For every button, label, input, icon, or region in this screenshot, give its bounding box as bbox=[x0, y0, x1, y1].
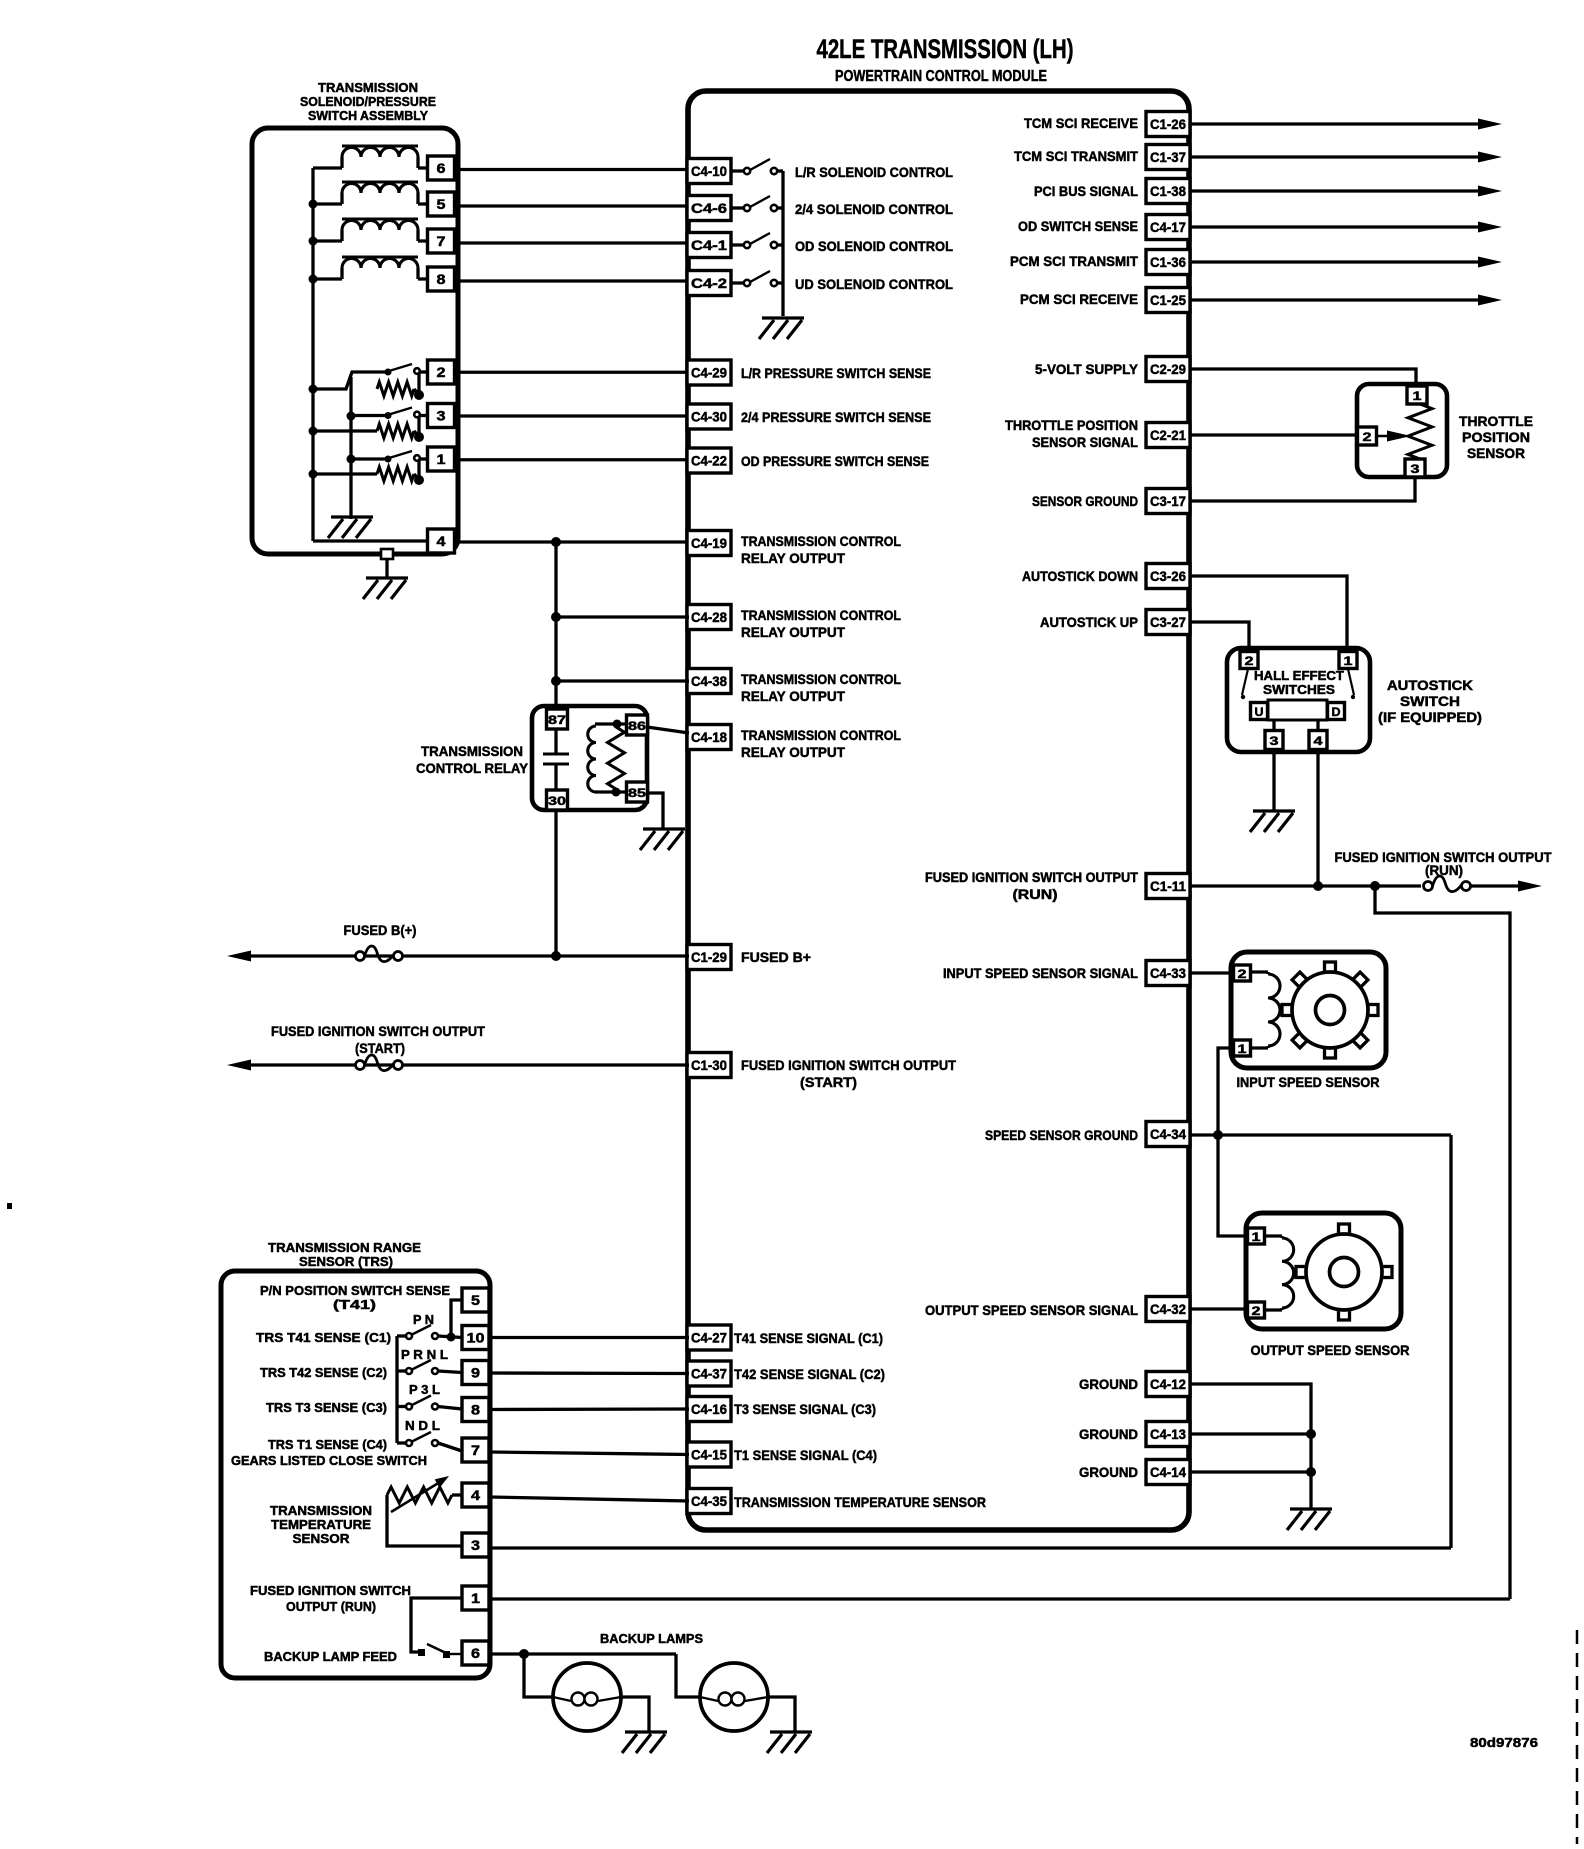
PCM connector C1-37 bbox=[1146, 145, 1190, 170]
junction coil bus pin7 row bbox=[309, 237, 318, 246]
throttle position sensor box bbox=[1357, 384, 1447, 477]
junction relay coil bottom bbox=[612, 788, 621, 797]
svg-text:FUSED IGNITION SWITCH OUTPUT: FUSED IGNITION SWITCH OUTPUT bbox=[741, 1057, 956, 1073]
wire bus signal with off-page arrow bbox=[1190, 260, 1482, 263]
autostick pin 4 bbox=[1309, 731, 1327, 750]
junction speed sensor ground bbox=[1213, 1130, 1223, 1140]
svg-text:C4-2: C4-2 bbox=[691, 275, 727, 291]
wire bus signal with off-page arrow bbox=[1190, 225, 1482, 228]
svg-text:POWERTRAIN CONTROL MODULE: POWERTRAIN CONTROL MODULE bbox=[835, 68, 1047, 85]
wire bus signal with off-page arrow bbox=[1190, 189, 1482, 192]
wire TRS pin10 to C4-27 bbox=[489, 1336, 689, 1339]
autostick U contact box bbox=[1251, 703, 1268, 720]
input speed sensor pin 2 bbox=[1234, 965, 1251, 981]
wire C1-11 fused ignition run bbox=[1190, 884, 1421, 887]
svg-text:2: 2 bbox=[437, 364, 446, 380]
svg-text:OD PRESSURE SWITCH SENSE: OD PRESSURE SWITCH SENSE bbox=[741, 453, 929, 469]
svg-text:C4-33: C4-33 bbox=[1150, 965, 1186, 981]
svg-text:L/R SOLENOID CONTROL: L/R SOLENOID CONTROL bbox=[795, 164, 953, 180]
svg-text:N D L: N D L bbox=[405, 1418, 440, 1433]
PCM connector C1-11 bbox=[1146, 874, 1190, 899]
svg-text:T3 SENSE SIGNAL (C3): T3 SENSE SIGNAL (C3) bbox=[734, 1401, 876, 1417]
output speed sensor coil bbox=[1264, 1234, 1282, 1237]
wire relay vertical bus from pin4 line bbox=[554, 542, 557, 711]
assembly pin 1 bbox=[428, 447, 455, 471]
ground (lamp 2) bbox=[767, 1732, 812, 1753]
junction relay feed on pin4 wire bbox=[551, 537, 561, 547]
ground (PCM grounds) bbox=[1287, 1509, 1332, 1530]
autostick pin 3 bbox=[1265, 731, 1283, 750]
wire assembly pin4 to C4-19 bbox=[455, 540, 689, 543]
svg-text:TRANSMISSION CONTROL: TRANSMISSION CONTROL bbox=[741, 607, 901, 623]
svg-text:TCM SCI TRANSMIT: TCM SCI TRANSMIT bbox=[1014, 148, 1138, 164]
wire bus signal with off-page arrow bbox=[1190, 298, 1482, 301]
wire input pin1 to speed sensor ground rail bbox=[1218, 1048, 1248, 1236]
svg-text:FUSED IGNITION SWITCH OUTPUT: FUSED IGNITION SWITCH OUTPUT bbox=[925, 869, 1138, 885]
svg-text:GEARS LISTED CLOSE SWITCH: GEARS LISTED CLOSE SWITCH bbox=[231, 1453, 427, 1468]
assembly pin 7 bbox=[428, 229, 455, 253]
input speed sensor coil bbox=[1250, 970, 1268, 973]
svg-text:(RUN): (RUN) bbox=[1013, 886, 1058, 902]
svg-text:C4-6: C4-6 bbox=[691, 200, 727, 216]
svg-text:OD SWITCH SENSE: OD SWITCH SENSE bbox=[1018, 218, 1138, 234]
driver switch for OD SOLENOID CONTROL bbox=[731, 243, 744, 246]
svg-text:C1-26: C1-26 bbox=[1150, 116, 1186, 132]
svg-text:PCI BUS SIGNAL: PCI BUS SIGNAL bbox=[1034, 183, 1138, 199]
svg-text:SWITCH: SWITCH bbox=[1400, 693, 1460, 709]
PCM connector C3-17 bbox=[1146, 489, 1190, 514]
svg-text:C2-29: C2-29 bbox=[1150, 361, 1186, 377]
wire rocker to pin4 bbox=[1316, 720, 1319, 731]
assembly pin 4 bbox=[428, 529, 455, 553]
assembly pin 3 bbox=[428, 404, 455, 428]
svg-text:5: 5 bbox=[437, 196, 446, 212]
svg-text:1: 1 bbox=[1413, 389, 1422, 403]
junction relay feed on fused B+ wire bbox=[551, 951, 561, 961]
svg-text:1: 1 bbox=[1238, 1042, 1247, 1056]
arrow fused B+ off-page bbox=[227, 951, 251, 962]
wire driver common to ground bbox=[781, 171, 784, 316]
svg-text:RELAY OUTPUT: RELAY OUTPUT bbox=[741, 550, 845, 566]
relay contact (pins 87-30, capacitor-style gap) bbox=[554, 729, 557, 753]
svg-text:T1 SENSE SIGNAL (C4): T1 SENSE SIGNAL (C4) bbox=[734, 1447, 877, 1463]
wire TRS pin4 to C4-35 bbox=[489, 1497, 689, 1501]
svg-text:C4-1: C4-1 bbox=[691, 237, 727, 253]
svg-text:TEMPERATURE: TEMPERATURE bbox=[271, 1517, 371, 1532]
backup lamp E2 bbox=[700, 1663, 768, 1731]
wire bus signal with off-page arrow bbox=[1190, 155, 1482, 158]
svg-text:INPUT SPEED SENSOR SIGNAL: INPUT SPEED SENSOR SIGNAL bbox=[943, 965, 1138, 981]
svg-text:TRS T42 SENSE (C2): TRS T42 SENSE (C2) bbox=[260, 1365, 387, 1380]
PCM connector C4-28 bbox=[687, 605, 731, 630]
svg-text:BACKUP LAMP FEED: BACKUP LAMP FEED bbox=[264, 1649, 397, 1664]
PCM connector C4-38 bbox=[687, 669, 731, 694]
svg-text:FUSED IGNITION SWITCH: FUSED IGNITION SWITCH bbox=[250, 1583, 411, 1598]
svg-text:T41 SENSE SIGNAL (C1): T41 SENSE SIGNAL (C1) bbox=[734, 1330, 883, 1346]
ground (solenoid drivers) bbox=[759, 318, 804, 339]
svg-text:U: U bbox=[1255, 705, 1264, 719]
svg-text:C4-30: C4-30 bbox=[691, 409, 727, 425]
relay resistor parallel with coil bbox=[608, 727, 625, 789]
solenoid coil L/R solenoid L1 (pin 6) bbox=[342, 148, 418, 158]
PCM connector C3-27 bbox=[1146, 610, 1190, 635]
scan marks right margin bbox=[1576, 1630, 1579, 1844]
autostick pin 2 bbox=[1240, 652, 1258, 669]
wire TRS pin5 to T41 line bbox=[451, 1300, 462, 1337]
TRS switch T41 (C1) bbox=[397, 1334, 406, 1337]
svg-text:C4-10: C4-10 bbox=[691, 163, 727, 179]
svg-text:TRANSMISSION CONTROL: TRANSMISSION CONTROL bbox=[741, 671, 901, 687]
TPS resistor bbox=[1408, 404, 1432, 459]
svg-text:5: 5 bbox=[471, 1292, 480, 1308]
svg-text:9: 9 bbox=[471, 1365, 480, 1381]
wire TRS pin7 to C4-15 bbox=[489, 1452, 689, 1455]
svg-text:P R N L: P R N L bbox=[401, 1347, 448, 1362]
PCM connector C4-27 bbox=[687, 1325, 731, 1350]
svg-text:SENSOR: SENSOR bbox=[293, 1531, 351, 1546]
wire TRS pin8 to C4-16 bbox=[489, 1407, 689, 1411]
svg-text:C1-30: C1-30 bbox=[691, 1057, 727, 1073]
wire C4-34 speed sensor ground bbox=[1190, 1133, 1451, 1136]
svg-text:86: 86 bbox=[628, 719, 646, 733]
backup lamp E1 bbox=[553, 1663, 621, 1731]
svg-text:C4-13: C4-13 bbox=[1150, 1426, 1186, 1442]
wire TRS pin1 fused ignition run rail bbox=[489, 1597, 1510, 1600]
svg-text:GROUND: GROUND bbox=[1079, 1426, 1138, 1442]
svg-text:TRANSMISSION CONTROL: TRANSMISSION CONTROL bbox=[741, 727, 901, 743]
svg-text:C4-29: C4-29 bbox=[691, 365, 727, 381]
wire relay 86 to C4-18 bbox=[647, 727, 689, 733]
svg-text:C1-37: C1-37 bbox=[1150, 149, 1186, 165]
TRS pin 1 bbox=[462, 1586, 489, 1610]
TPS pin 3 bbox=[1405, 459, 1425, 477]
junction ground C4-14 bbox=[1306, 1467, 1316, 1477]
input speed sensor pin 1 bbox=[1234, 1040, 1251, 1056]
PCM connector C3-26 bbox=[1146, 564, 1190, 589]
svg-text:80d97876: 80d97876 bbox=[1470, 1735, 1538, 1750]
svg-text:(RUN): (RUN) bbox=[1425, 862, 1463, 878]
svg-text:C1-29: C1-29 bbox=[691, 949, 727, 965]
svg-text:C1-38: C1-38 bbox=[1150, 183, 1186, 199]
wire TRS pin6 to lamps bbox=[489, 1652, 676, 1655]
junction C4-28 wire bbox=[551, 612, 561, 622]
svg-text:2: 2 bbox=[1252, 1304, 1261, 1318]
transmission range sensor box bbox=[221, 1271, 490, 1678]
wire lamp2 to ground bbox=[768, 1697, 795, 1731]
wire relay 30 down to fused B+ line bbox=[554, 810, 557, 956]
driver switch for 2/4 SOLENOID CONTROL bbox=[731, 206, 744, 209]
svg-text:10: 10 bbox=[467, 1330, 485, 1346]
arrow fused ignition start off-page bbox=[227, 1060, 251, 1071]
svg-text:C4-22: C4-22 bbox=[691, 453, 727, 469]
PCM connector C4-6 bbox=[687, 196, 731, 221]
svg-text:4: 4 bbox=[471, 1487, 480, 1503]
svg-text:POSITION: POSITION bbox=[1462, 429, 1530, 445]
driver switch for L/R SOLENOID CONTROL bbox=[731, 169, 744, 172]
inner bus wire to ground bbox=[349, 377, 352, 519]
wire TPS pin3 to C3-17 bbox=[1190, 477, 1415, 501]
junction inner bus row3 bbox=[347, 455, 356, 464]
svg-text:TRANSMISSION: TRANSMISSION bbox=[318, 80, 418, 95]
assembly pin 5 bbox=[428, 192, 455, 216]
wire fused B+ to C1-29 bbox=[247, 954, 689, 957]
TRS pin 3 bbox=[462, 1533, 489, 1557]
svg-text:SWITCH ASSEMBLY: SWITCH ASSEMBLY bbox=[308, 108, 428, 123]
driver switch for UD SOLENOID CONTROL bbox=[731, 281, 744, 284]
wire fused ignition start to C1-30 bbox=[247, 1063, 689, 1066]
junction C4-38 wire bbox=[551, 676, 561, 686]
svg-text:6: 6 bbox=[437, 160, 446, 176]
svg-text:C1-36: C1-36 bbox=[1150, 254, 1186, 270]
wire down to lamp 2 bbox=[676, 1654, 700, 1697]
junction coil bus pin5 row bbox=[309, 200, 318, 209]
junction backup lamp feed bbox=[519, 1649, 529, 1659]
wire relay 85 to ground bbox=[647, 793, 663, 828]
wire C4-12 to ground bbox=[1190, 1384, 1311, 1508]
wire C4-32 to output speed sensor pin2 bbox=[1190, 1307, 1248, 1310]
svg-text:UD SOLENOID CONTROL: UD SOLENOID CONTROL bbox=[795, 276, 953, 292]
svg-text:SENSOR (TRS): SENSOR (TRS) bbox=[299, 1254, 393, 1269]
autostick pin 1 bbox=[1339, 652, 1357, 669]
PCM connector C2-21 bbox=[1146, 423, 1190, 448]
svg-text:(START): (START) bbox=[800, 1074, 857, 1090]
output speed sensor tone wheel bbox=[1339, 1224, 1350, 1235]
PCM connector C4-29 bbox=[687, 360, 731, 385]
svg-text:2: 2 bbox=[1363, 430, 1372, 444]
fuse F3 (ignition run) bbox=[1424, 876, 1471, 892]
wire assembly to PCM bbox=[455, 279, 689, 282]
wire C3-27 to autostick pin2 bbox=[1190, 622, 1249, 652]
svg-text:GROUND: GROUND bbox=[1079, 1376, 1138, 1392]
TRS pin 5 bbox=[462, 1288, 489, 1312]
svg-text:RELAY OUTPUT: RELAY OUTPUT bbox=[741, 688, 845, 704]
svg-text:OUTPUT (RUN): OUTPUT (RUN) bbox=[286, 1599, 376, 1614]
svg-text:C3-27: C3-27 bbox=[1150, 614, 1186, 630]
svg-text:2/4 SOLENOID CONTROL: 2/4 SOLENOID CONTROL bbox=[795, 201, 953, 217]
PCM connector C4-10 bbox=[687, 159, 731, 184]
input speed sensor tone wheel bbox=[1325, 962, 1336, 973]
svg-text:C4-18: C4-18 bbox=[691, 729, 727, 745]
PCM connector C4-19 bbox=[687, 531, 731, 556]
svg-text:2: 2 bbox=[1245, 654, 1254, 668]
junction relay coil top bbox=[613, 720, 622, 729]
svg-text:1: 1 bbox=[1252, 1230, 1261, 1244]
wire autostick pin3 to ground bbox=[1272, 750, 1275, 810]
scan mark left margin bbox=[7, 1203, 12, 1209]
input speed sensor box bbox=[1231, 952, 1386, 1068]
wire run rail down to TRS pin 1 bbox=[1375, 886, 1510, 1599]
wire C4-33 to input speed sensor pin2 bbox=[1190, 971, 1234, 974]
svg-text:TRANSMISSION CONTROL: TRANSMISSION CONTROL bbox=[741, 533, 901, 549]
svg-text:SPEED SENSOR GROUND: SPEED SENSOR GROUND bbox=[985, 1127, 1138, 1143]
solenoid coil UD solenoid L4 (pin 8) bbox=[342, 259, 418, 269]
PCM connector C4-18 bbox=[687, 725, 731, 750]
svg-text:OUTPUT SPEED SENSOR SIGNAL: OUTPUT SPEED SENSOR SIGNAL bbox=[925, 1302, 1138, 1318]
svg-text:C4-19: C4-19 bbox=[691, 535, 727, 551]
svg-text:AUTOSTICK DOWN: AUTOSTICK DOWN bbox=[1022, 568, 1138, 584]
svg-text:FUSED B+: FUSED B+ bbox=[741, 949, 811, 965]
wire C4-13 to ground bbox=[1190, 1432, 1311, 1435]
svg-text:SWITCHES: SWITCHES bbox=[1263, 683, 1335, 697]
transmission control relay K1 box bbox=[532, 706, 647, 810]
PCM connector C1-38 bbox=[1146, 179, 1190, 204]
PCM connector C4-33 bbox=[1146, 961, 1190, 986]
PCM connector C4-2 bbox=[687, 271, 731, 296]
svg-text:C1-25: C1-25 bbox=[1150, 292, 1186, 308]
svg-text:(T41): (T41) bbox=[333, 1297, 376, 1312]
svg-text:C4-34: C4-34 bbox=[1150, 1126, 1186, 1142]
junction pin5 T41 bbox=[447, 1333, 456, 1342]
svg-text:TRANSMISSION TEMPERATURE SENSO: TRANSMISSION TEMPERATURE SENSOR bbox=[734, 1494, 986, 1510]
wire rocker to pin3 bbox=[1272, 720, 1275, 731]
junction run rail bbox=[1370, 881, 1380, 891]
transmission solenoid/pressure switch assembly box bbox=[252, 128, 458, 554]
wire lamp1 to ground bbox=[621, 1697, 649, 1731]
svg-text:C4-14: C4-14 bbox=[1150, 1464, 1186, 1480]
backup lamp switch S4 bbox=[418, 1649, 425, 1656]
2/4 pressure switch S2 with parallel resistor bbox=[313, 429, 377, 432]
junction bus pressure row 1 bbox=[309, 385, 318, 394]
svg-text:TRS T3 SENSE (C3): TRS T3 SENSE (C3) bbox=[266, 1400, 387, 1415]
ground (autostick) bbox=[1250, 811, 1295, 832]
wire C2-21 to TPS pin2 bbox=[1190, 433, 1358, 436]
PCM connector C4-13 bbox=[1146, 1422, 1190, 1447]
svg-text:1: 1 bbox=[471, 1590, 480, 1606]
assembly case bottom stub bbox=[381, 549, 393, 559]
arrow fused ignition run off-page bbox=[1518, 881, 1542, 892]
assembly pin 8 bbox=[428, 267, 455, 291]
junction bus pressure row 3 bbox=[309, 470, 318, 479]
svg-text:C4-15: C4-15 bbox=[691, 1447, 727, 1463]
svg-text:(START): (START) bbox=[355, 1040, 405, 1056]
svg-text:87: 87 bbox=[548, 713, 566, 727]
junction inner bus row2 bbox=[347, 412, 356, 421]
svg-text:T42 SENSE SIGNAL (C2): T42 SENSE SIGNAL (C2) bbox=[734, 1366, 885, 1382]
junction coil bus pin8 row bbox=[309, 275, 318, 284]
relay pin 86 bbox=[627, 715, 648, 735]
svg-text:TRANSMISSION: TRANSMISSION bbox=[421, 743, 523, 759]
svg-text:4: 4 bbox=[437, 533, 446, 549]
L/R pressure switch S1 with parallel resistor bbox=[313, 372, 387, 389]
wire bus signal with off-page arrow bbox=[1190, 122, 1482, 125]
TRS switch T42 (C2) bbox=[397, 1369, 406, 1372]
svg-text:RELAY OUTPUT: RELAY OUTPUT bbox=[741, 624, 845, 640]
junction autostick pin4 bbox=[1313, 881, 1323, 891]
PCM connector C4-30 bbox=[687, 404, 731, 429]
svg-text:TRANSMISSION: TRANSMISSION bbox=[270, 1503, 372, 1518]
svg-text:4: 4 bbox=[1314, 734, 1323, 748]
PCM connector C1-36 bbox=[1146, 250, 1190, 275]
svg-text:C4-28: C4-28 bbox=[691, 609, 727, 625]
svg-text:C4-32: C4-32 bbox=[1150, 1301, 1186, 1317]
TRS pin 4 bbox=[462, 1483, 489, 1507]
TRS pin 7 bbox=[462, 1438, 489, 1462]
PCM connector C4-22 bbox=[687, 448, 731, 473]
PCM connector C1-26 bbox=[1146, 112, 1190, 137]
output speed sensor pin 2 bbox=[1248, 1302, 1265, 1318]
wire TRS pin3 sensor ground return bbox=[489, 1546, 1451, 1549]
svg-text:C4-16: C4-16 bbox=[691, 1401, 727, 1417]
solenoid coil OD solenoid L3 (pin 7) bbox=[342, 221, 418, 230]
wire to C4-28 bbox=[556, 615, 689, 618]
autostick switch box bbox=[1227, 648, 1370, 752]
svg-text:C4-12: C4-12 bbox=[1150, 1376, 1186, 1392]
junction ground C4-13 bbox=[1306, 1429, 1316, 1439]
svg-text:D: D bbox=[1332, 705, 1341, 719]
OD pressure switch S3 with parallel resistor bbox=[313, 472, 377, 475]
wire down to lamp 1 bbox=[524, 1654, 553, 1697]
TPS wiper arrow from pin2 bbox=[1377, 435, 1396, 437]
relay pin 87 bbox=[547, 709, 568, 729]
wire speed sensor ground rail down bbox=[1449, 1135, 1452, 1548]
svg-text:85: 85 bbox=[628, 786, 646, 800]
fuse F2 (ignition start) bbox=[356, 1055, 403, 1071]
svg-text:C4-27: C4-27 bbox=[691, 1330, 727, 1346]
svg-text:P/N POSITION SWITCH SENSE: P/N POSITION SWITCH SENSE bbox=[260, 1283, 450, 1298]
svg-text:1: 1 bbox=[1344, 654, 1353, 668]
solenoid coil 2/4 solenoid L2 (pin 5) bbox=[342, 184, 418, 194]
svg-text:(IF EQUIPPED): (IF EQUIPPED) bbox=[1378, 709, 1482, 725]
svg-text:42LE TRANSMISSION (LH): 42LE TRANSMISSION (LH) bbox=[817, 34, 1074, 64]
TRS pin 8 bbox=[462, 1398, 489, 1422]
svg-text:3: 3 bbox=[1411, 462, 1420, 476]
svg-text:C4-37: C4-37 bbox=[691, 1366, 727, 1382]
svg-text:3: 3 bbox=[437, 408, 446, 424]
fuse F1 (B+) bbox=[356, 946, 403, 962]
TRS pin 6 bbox=[462, 1641, 489, 1665]
ground (relay coil) bbox=[640, 829, 685, 850]
PCM connector C4-12 bbox=[1146, 1372, 1190, 1397]
svg-text:5-VOLT SUPPLY: 5-VOLT SUPPLY bbox=[1035, 361, 1139, 377]
svg-text:AUTOSTICK: AUTOSTICK bbox=[1387, 677, 1473, 693]
svg-text:L/R PRESSURE SWITCH SENSE: L/R PRESSURE SWITCH SENSE bbox=[741, 365, 931, 381]
svg-text:TRS T41 SENSE (C1): TRS T41 SENSE (C1) bbox=[256, 1330, 391, 1345]
output speed sensor box bbox=[1246, 1213, 1401, 1329]
powertrain control module U1 box bbox=[688, 91, 1189, 1530]
autostick D contact box bbox=[1328, 703, 1345, 720]
relay pin 85 bbox=[627, 782, 648, 802]
svg-text:C4-17: C4-17 bbox=[1150, 219, 1186, 235]
ground bbox=[328, 517, 373, 538]
transmission temperature sensor RT1 (variable resistor) bbox=[387, 1487, 452, 1503]
svg-text:C3-26: C3-26 bbox=[1150, 568, 1186, 584]
svg-text:INPUT SPEED SENSOR: INPUT SPEED SENSOR bbox=[1237, 1074, 1380, 1090]
PCM connector C2-29 bbox=[1146, 357, 1190, 382]
assembly internal bus wire (coil common to pin 4) bbox=[311, 168, 314, 541]
svg-text:C3-17: C3-17 bbox=[1150, 493, 1186, 509]
autostick down switch blade bbox=[1348, 669, 1354, 695]
svg-text:BACKUP LAMPS: BACKUP LAMPS bbox=[600, 1631, 703, 1646]
PCM connector C4-1 bbox=[687, 233, 731, 258]
wire temp sensor to pin 4 bbox=[452, 1493, 462, 1496]
assembly pin 6 bbox=[428, 156, 455, 180]
svg-text:SOLENOID/PRESSURE: SOLENOID/PRESSURE bbox=[300, 94, 436, 109]
TRS pin 9 bbox=[462, 1361, 489, 1385]
wire autostick pin4 to C1-11 line bbox=[1316, 750, 1319, 886]
svg-text:3: 3 bbox=[1270, 734, 1279, 748]
svg-text:C4-38: C4-38 bbox=[691, 673, 727, 689]
svg-text:TCM SCI RECEIVE: TCM SCI RECEIVE bbox=[1024, 115, 1138, 131]
svg-text:RELAY OUTPUT: RELAY OUTPUT bbox=[741, 744, 845, 760]
PCM connector C4-16 bbox=[687, 1397, 731, 1422]
PCM connector C4-34 bbox=[1146, 1122, 1190, 1147]
svg-text:6: 6 bbox=[471, 1645, 480, 1661]
wire C4-14 to ground bbox=[1190, 1470, 1311, 1473]
svg-text:1: 1 bbox=[437, 451, 446, 467]
svg-text:CONTROL RELAY: CONTROL RELAY bbox=[416, 760, 529, 776]
PCM connector C4-17 bbox=[1146, 215, 1190, 240]
wire assembly to PCM bbox=[455, 414, 689, 417]
